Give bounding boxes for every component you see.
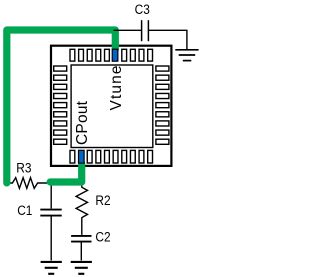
IC pad CPout (blue) <box>79 150 85 163</box>
IC die outline <box>71 65 153 148</box>
IC pad bottom 8 <box>130 150 135 163</box>
wire Vtune to C3 <box>114 29 142 31</box>
IC pad left 7 <box>54 121 67 126</box>
wire CPout trace (green) <box>7 30 116 183</box>
IC pad top 10 <box>148 49 153 61</box>
wire C3 to ground <box>149 30 187 49</box>
svg-text:Vtune: Vtune <box>108 66 125 111</box>
IC pad top 5 <box>105 49 110 61</box>
IC pad left 9 <box>54 139 67 144</box>
resistor R2 <box>76 186 87 235</box>
ground (C3) <box>175 50 198 61</box>
IC pad bottom 1 <box>70 150 75 163</box>
IC pad left 1 <box>54 66 67 71</box>
IC pad right 4 <box>156 93 169 98</box>
IC pad bottom 9 <box>139 150 144 163</box>
IC pad left 5 <box>54 103 67 108</box>
IC pad top 3 <box>87 49 92 61</box>
IC pad right 2 <box>156 75 169 80</box>
IC pad top 2 <box>79 49 84 61</box>
svg-text:C2: C2 <box>95 229 110 245</box>
resistor R3 <box>4 178 50 189</box>
IC U1 package outline <box>51 46 171 166</box>
IC pad top 1 <box>70 49 75 61</box>
IC pad bottom 6 <box>113 150 118 163</box>
svg-text:C1: C1 <box>17 202 32 218</box>
IC pad top 4 <box>96 49 101 61</box>
IC pad bottom 5 <box>105 150 110 163</box>
IC pad top 9 <box>139 49 144 61</box>
wire C1 to ground <box>50 216 52 260</box>
IC pad left 2 <box>54 75 67 80</box>
IC pad bottom 3 <box>87 150 92 163</box>
wire R3 to CPout trace (green) <box>50 164 82 183</box>
IC pad right 9 <box>156 139 169 144</box>
wire C2 to ground <box>80 242 82 260</box>
IC pad bottom 7 <box>122 150 127 163</box>
IC pad bottom 4 <box>96 150 101 163</box>
IC pad right 7 <box>156 121 169 126</box>
ground (C2) <box>71 262 92 274</box>
svg-text:C3: C3 <box>135 1 150 17</box>
IC pad right 5 <box>156 103 169 108</box>
capacitor C3 <box>142 20 149 41</box>
wire node to C1 <box>50 182 52 209</box>
capacitor C1 <box>40 210 61 216</box>
capacitor C2 <box>71 236 91 242</box>
IC pad left 6 <box>54 112 67 117</box>
IC pad left 8 <box>54 130 67 135</box>
IC pad right 1 <box>156 66 169 71</box>
IC pad right 6 <box>156 112 169 117</box>
IC pad top 8 <box>130 49 135 61</box>
svg-text:R2: R2 <box>95 192 110 208</box>
IC pad right 3 <box>156 84 169 89</box>
svg-text:R3: R3 <box>16 160 31 176</box>
IC pad left 4 <box>54 93 67 98</box>
IC pad right 8 <box>156 130 169 135</box>
svg-text:CPout: CPout <box>74 100 91 145</box>
IC pad left 3 <box>54 84 67 89</box>
IC pad top 7 <box>122 49 127 61</box>
IC pad Vtune (blue) <box>112 49 118 61</box>
ground (C1) <box>41 262 62 274</box>
IC pad bottom 10 <box>148 150 153 163</box>
